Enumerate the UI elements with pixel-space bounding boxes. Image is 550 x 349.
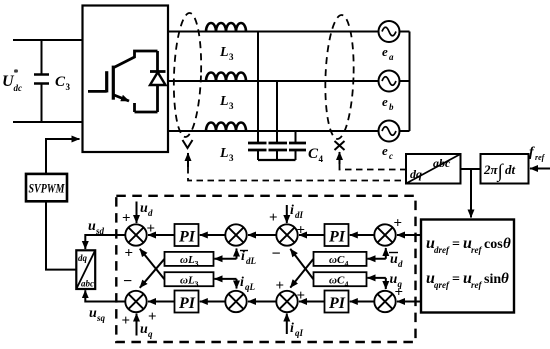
svg-text:+: + bbox=[276, 278, 285, 294]
wire dq/abc to SVPWM bbox=[46, 201, 76, 269]
svg-text:b: b bbox=[389, 102, 394, 112]
svg-text:L: L bbox=[219, 146, 229, 161]
summing junction S3 (d-axis) bbox=[276, 224, 297, 245]
summing junction S5 (q-axis left) bbox=[125, 291, 146, 312]
svg-text:3: 3 bbox=[195, 280, 199, 289]
value label C3 bbox=[55, 74, 71, 92]
wire neutral bus bbox=[409, 32, 411, 132]
gain block wC4 (upper) bbox=[314, 252, 367, 269]
svg-text:C: C bbox=[308, 146, 319, 162]
label u_d bbox=[140, 201, 153, 218]
wire dashed VT1 to dq/abc bbox=[340, 164, 406, 170]
svg-text:PI: PI bbox=[328, 295, 346, 312]
value label L3 (phase C) bbox=[219, 146, 234, 163]
svg-text:L: L bbox=[219, 45, 229, 60]
wire ref block to S8 bbox=[397, 301, 421, 303]
value label L3 (phase A) bbox=[219, 45, 234, 62]
svg-text:sin: sin bbox=[484, 272, 501, 287]
inductor L3 phase A bbox=[206, 23, 246, 32]
svg-text:−: − bbox=[123, 273, 132, 290]
arrow into sensor CT1 bbox=[187, 153, 189, 167]
svg-text:e: e bbox=[382, 44, 388, 59]
svg-text:+: + bbox=[395, 285, 404, 301]
wire phase B bbox=[168, 80, 379, 82]
svg-text:4: 4 bbox=[345, 260, 349, 269]
wire dashed CT1 to dq/abc bbox=[188, 167, 405, 181]
label i_dL (with bar) bbox=[240, 249, 257, 266]
summing junction S2 (d-axis mid) bbox=[225, 224, 246, 245]
wire u_d bar to wC4 upper bbox=[368, 258, 386, 260]
wire phase A bbox=[168, 31, 379, 33]
wire source ea to neutral bbox=[400, 31, 410, 33]
value label C4 bbox=[308, 146, 324, 164]
svg-text:dref: dref bbox=[434, 245, 450, 255]
wire phase C bbox=[168, 130, 379, 132]
wire u_q to wC4 lower bbox=[368, 277, 386, 279]
svg-text:+: + bbox=[125, 246, 134, 262]
PI controller block PI4 bbox=[325, 291, 349, 313]
svg-text:ωL: ωL bbox=[180, 274, 195, 286]
label i_qL bbox=[240, 275, 256, 292]
svg-text:d: d bbox=[148, 208, 153, 218]
source eb bbox=[379, 71, 400, 92]
svg-text:qL: qL bbox=[245, 282, 256, 292]
wire PI3 to S5 bbox=[148, 301, 175, 303]
wire i_qL to wL3 lower bbox=[215, 278, 237, 280]
svg-text:i: i bbox=[290, 203, 294, 218]
label u_d bar bbox=[389, 252, 403, 269]
summing junction S4 (d-axis right) bbox=[374, 224, 395, 245]
summing junction S1 (d-axis left) bbox=[125, 224, 146, 245]
gain block wC4 (lower) bbox=[314, 272, 367, 289]
wire ref block to S4 bbox=[397, 234, 421, 236]
wire u_d input bbox=[136, 202, 138, 224]
svg-text:ref: ref bbox=[471, 280, 482, 290]
svg-text:PI: PI bbox=[328, 229, 346, 246]
node Udc* label bbox=[2, 68, 22, 93]
svg-text:∫: ∫ bbox=[497, 161, 505, 183]
svg-text:i: i bbox=[240, 275, 244, 290]
svg-text:u: u bbox=[390, 252, 398, 267]
wire S3 to S2 bbox=[248, 234, 276, 236]
svg-text:ref: ref bbox=[471, 245, 482, 255]
svg-text:dt: dt bbox=[505, 162, 516, 177]
wire S4 to PI2 bbox=[350, 234, 375, 236]
svg-text:cos: cos bbox=[484, 237, 503, 252]
label i_dI bbox=[290, 203, 304, 220]
wire PI4 to S7 bbox=[299, 301, 325, 303]
label u_q (right) bbox=[390, 272, 403, 289]
label ec bbox=[382, 143, 393, 161]
svg-text:3: 3 bbox=[195, 260, 199, 269]
label u_q bbox=[140, 322, 153, 339]
svg-text:ref: ref bbox=[535, 153, 546, 162]
current sensor CT1 (dashed loop) bbox=[172, 13, 203, 148]
wire phase B to capacitor bank bbox=[276, 81, 278, 142]
label u_sq bbox=[89, 306, 106, 323]
svg-text:qI: qI bbox=[295, 328, 304, 338]
control section dashed box bbox=[116, 196, 415, 342]
label i_qI bbox=[290, 321, 304, 338]
svg-text:+: + bbox=[297, 223, 306, 239]
wire DC+ bus bbox=[13, 39, 83, 41]
wire S2 to PI1 bbox=[200, 234, 226, 236]
svg-text:PI: PI bbox=[178, 229, 196, 246]
svg-text:abc: abc bbox=[81, 279, 94, 289]
arrow into sensor VT1 bbox=[339, 152, 341, 164]
PI controller block PI3 bbox=[175, 291, 199, 313]
inductor L3 phase B bbox=[206, 73, 246, 81]
svg-text:dI: dI bbox=[295, 210, 304, 220]
svg-text:e: e bbox=[382, 143, 388, 158]
wire u_q input bbox=[136, 314, 138, 336]
capacitor C3 bbox=[34, 40, 49, 122]
svg-text:a: a bbox=[389, 52, 394, 62]
svg-text:abc: abc bbox=[433, 156, 451, 170]
svg-text:sq: sq bbox=[96, 313, 106, 323]
svg-text:3: 3 bbox=[229, 52, 234, 62]
svg-text:L: L bbox=[219, 94, 229, 109]
svg-text:*: * bbox=[14, 68, 19, 79]
svg-text:e: e bbox=[382, 94, 388, 109]
transform block dq to abc bbox=[76, 250, 95, 289]
svg-text:dq: dq bbox=[410, 167, 422, 181]
wire wL3 lower to S1 (decoupling) bbox=[140, 249, 165, 280]
svg-text:dc: dc bbox=[14, 83, 23, 93]
svg-text:i: i bbox=[241, 249, 245, 264]
svg-text:u: u bbox=[140, 322, 148, 337]
wire theta to reference block bbox=[470, 169, 472, 218]
wire dq/abc to integrator bbox=[461, 168, 481, 170]
svg-text:C: C bbox=[55, 74, 66, 90]
label eb bbox=[382, 94, 394, 112]
reference block u_dref/u_qref bbox=[421, 220, 514, 313]
transistor Q1 (IGBT with antiparallel diode) bbox=[88, 51, 166, 112]
wire DC- bus bbox=[13, 121, 83, 123]
wire wC4 upper to S7 (decoupling) bbox=[290, 259, 313, 288]
integrator block 2pi∫dt bbox=[481, 154, 529, 184]
svg-text:d: d bbox=[398, 259, 403, 269]
SVPWM block bbox=[26, 174, 67, 201]
svg-text:dL: dL bbox=[246, 256, 257, 266]
svg-text:i: i bbox=[290, 321, 294, 336]
svg-text:u: u bbox=[140, 201, 148, 216]
svg-text:3: 3 bbox=[66, 82, 71, 92]
svg-text:+: + bbox=[269, 210, 278, 226]
wire PI1 to S1 bbox=[148, 234, 175, 236]
svg-text:ωL: ωL bbox=[180, 254, 195, 266]
PI controller block PI1 bbox=[175, 224, 199, 246]
svg-text:4: 4 bbox=[345, 280, 349, 289]
wire i_dL to wL3 upper bbox=[215, 258, 237, 260]
svg-text:+: + bbox=[122, 313, 131, 329]
svg-text:ωC: ωC bbox=[329, 254, 345, 266]
wire u_sq S5 to transform bbox=[85, 290, 125, 301]
svg-text:sd: sd bbox=[95, 226, 105, 236]
label f_ref bbox=[529, 145, 546, 162]
svg-text:PI: PI bbox=[178, 295, 196, 312]
wire i_qL feedback to S6 bbox=[236, 279, 238, 289]
wire wC4 lower to S3 (decoupling) bbox=[290, 249, 313, 280]
gain block wL3 (lower) bbox=[165, 272, 214, 289]
PI controller block PI2 bbox=[325, 224, 349, 246]
wire f_ref input bbox=[530, 168, 550, 170]
svg-text:3: 3 bbox=[229, 101, 234, 111]
svg-text:θ: θ bbox=[503, 236, 511, 252]
svg-text:u: u bbox=[89, 306, 97, 321]
svg-text:=: = bbox=[452, 237, 460, 252]
svg-text:dq: dq bbox=[78, 253, 88, 263]
capacitor C4 common bar bbox=[258, 150, 296, 160]
inductor L3 phase C bbox=[206, 123, 246, 132]
summing junction S6 (q-axis mid) bbox=[225, 291, 246, 312]
svg-text:SVPWM: SVPWM bbox=[29, 181, 65, 196]
gain block wL3 (upper) bbox=[165, 252, 214, 269]
wire S6 to PI3 bbox=[200, 301, 226, 303]
wire PI2 to S3 bbox=[299, 234, 325, 236]
wire u_q feedback to S8 bbox=[385, 278, 387, 289]
wire phase A to capacitor bank bbox=[257, 32, 259, 143]
wire u_sd S1 to transform bbox=[85, 235, 125, 249]
svg-text:3: 3 bbox=[229, 153, 234, 163]
voltage sensor VT1 (dashed loop) bbox=[323, 15, 355, 150]
label u_sd bbox=[88, 219, 105, 236]
wire wL3 upper to S5 (decoupling) bbox=[140, 259, 165, 288]
svg-text:+: + bbox=[147, 221, 156, 237]
svg-text:+: + bbox=[122, 211, 131, 227]
svg-text:+: + bbox=[297, 288, 306, 304]
value label L3 (phase B) bbox=[219, 94, 234, 111]
wire S7 to S6 bbox=[248, 301, 276, 303]
svg-text:−: − bbox=[272, 246, 281, 263]
capacitor C4 bank plates bbox=[248, 143, 306, 150]
svg-text:c: c bbox=[389, 151, 393, 161]
summing junction S8 (q-axis right) bbox=[374, 291, 395, 312]
svg-text:u: u bbox=[88, 219, 96, 234]
svg-text:θ: θ bbox=[501, 271, 509, 287]
svg-text:4: 4 bbox=[319, 154, 324, 164]
transform block dq/abc bbox=[406, 154, 461, 184]
summing junction S7 (q-axis) bbox=[276, 291, 297, 312]
wire SVPWM to inverter gate bbox=[46, 139, 80, 174]
wire phase C to capacitor bank bbox=[295, 131, 297, 142]
svg-text:+: + bbox=[148, 309, 157, 325]
wire i_qI input bbox=[286, 314, 288, 335]
svg-text:q: q bbox=[148, 329, 153, 339]
label ea bbox=[382, 44, 394, 62]
wire u_d bar feedback to S4 bbox=[385, 248, 387, 259]
svg-text:ωC: ωC bbox=[329, 274, 345, 286]
source ea bbox=[379, 21, 400, 42]
svg-text:qref: qref bbox=[434, 280, 450, 290]
wire i_dL feedback to S2 bbox=[236, 249, 238, 259]
inverter block U1 bbox=[83, 6, 169, 153]
svg-text:+: + bbox=[394, 216, 403, 232]
svg-text:2π: 2π bbox=[483, 162, 499, 177]
svg-text:=: = bbox=[452, 272, 460, 287]
source ec bbox=[379, 121, 400, 142]
wire source ec to neutral bbox=[400, 130, 410, 132]
wire i_dI input bbox=[286, 205, 288, 223]
wire source eb to neutral bbox=[400, 80, 410, 82]
wire S8 to PI4 bbox=[350, 301, 375, 303]
